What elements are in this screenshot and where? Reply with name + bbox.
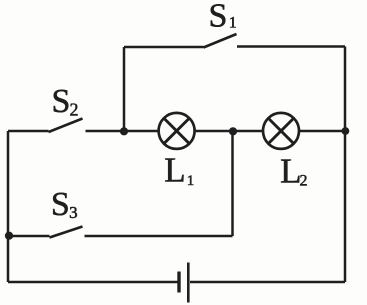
svg-text:1: 1	[229, 15, 237, 32]
svg-text:S: S	[209, 0, 228, 35]
svg-text:1: 1	[187, 173, 195, 189]
svg-text:S: S	[52, 83, 71, 120]
svg-text:2: 2	[70, 100, 79, 120]
svg-text:3: 3	[69, 203, 78, 222]
svg-text:S: S	[51, 186, 70, 223]
svg-text:2: 2	[300, 173, 308, 190]
svg-text:L: L	[280, 151, 301, 190]
svg-text:L: L	[164, 151, 185, 190]
